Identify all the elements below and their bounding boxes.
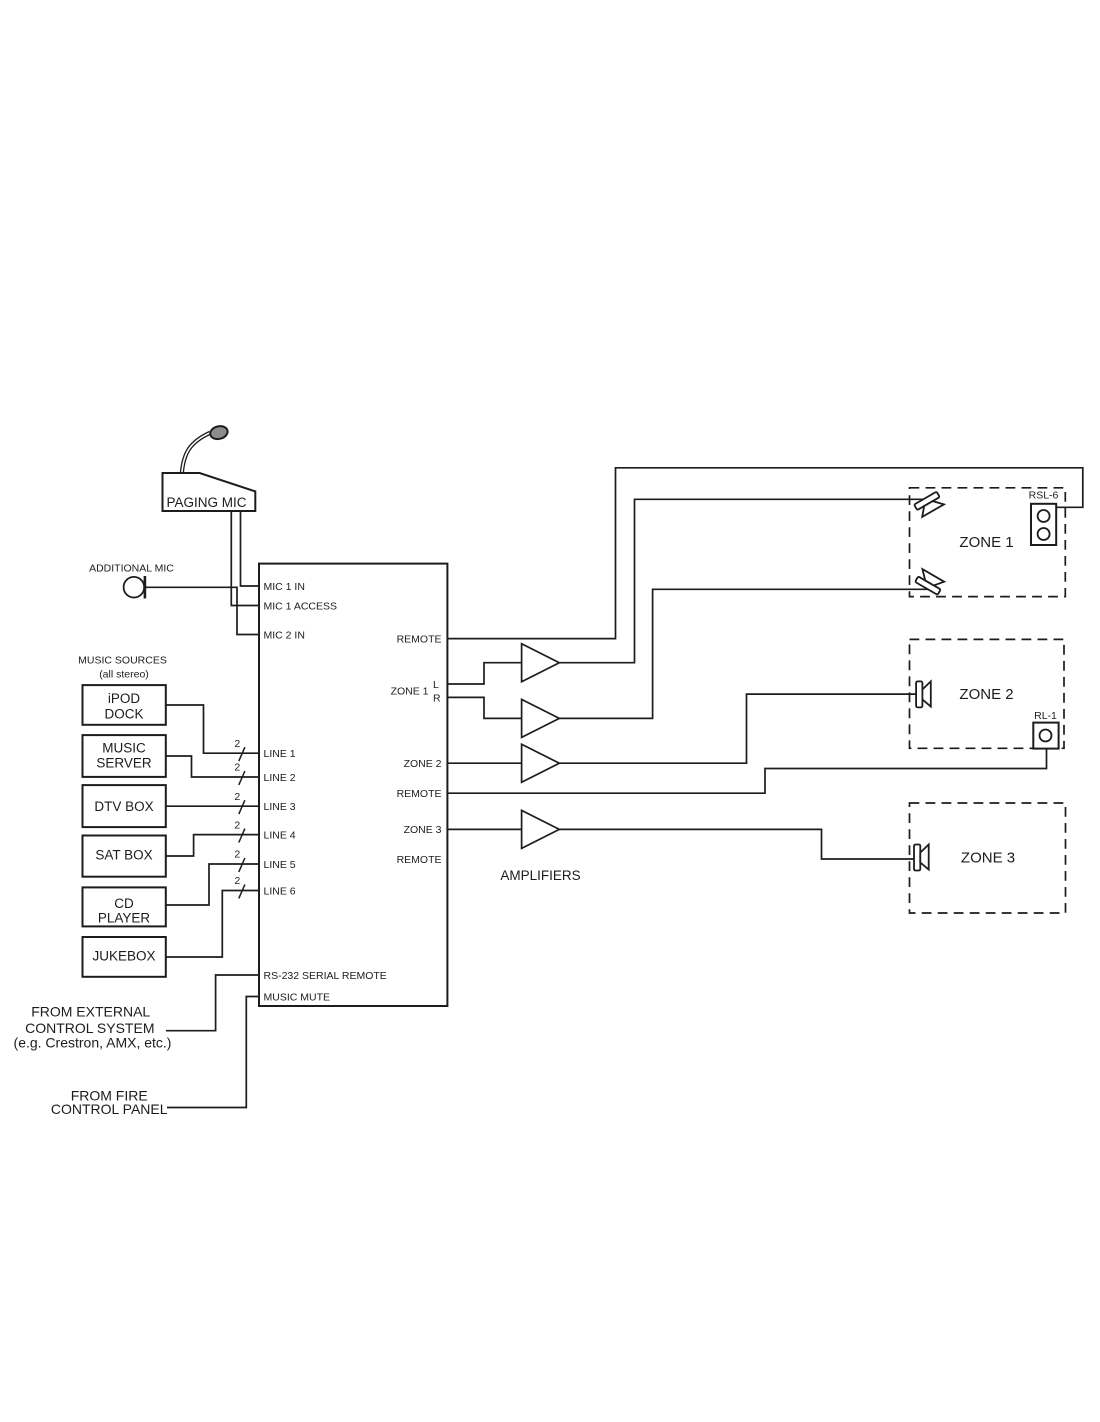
svg-text:REMOTE: REMOTE bbox=[397, 854, 442, 866]
svg-text:RS-232 SERIAL REMOTE: RS-232 SERIAL REMOTE bbox=[264, 970, 387, 982]
svg-text:LINE 4: LINE 4 bbox=[264, 829, 296, 841]
svg-text:CONTROL PANEL: CONTROL PANEL bbox=[51, 1101, 168, 1117]
svg-text:2: 2 bbox=[234, 791, 240, 803]
svg-text:PAGING MIC: PAGING MIC bbox=[166, 495, 246, 510]
svg-text:SAT BOX: SAT BOX bbox=[95, 848, 152, 863]
svg-text:2: 2 bbox=[234, 819, 240, 831]
svg-text:MIC 1 IN: MIC 1 IN bbox=[264, 581, 305, 593]
svg-text:(all stereo): (all stereo) bbox=[99, 669, 149, 681]
svg-text:DTV BOX: DTV BOX bbox=[94, 799, 153, 814]
svg-text:2: 2 bbox=[234, 875, 240, 887]
svg-text:ADDITIONAL MIC: ADDITIONAL MIC bbox=[89, 563, 174, 575]
svg-text:RSL-6: RSL-6 bbox=[1029, 490, 1059, 502]
svg-text:MIC 1 ACCESS: MIC 1 ACCESS bbox=[264, 600, 338, 612]
svg-text:ZONE 3: ZONE 3 bbox=[404, 824, 442, 836]
svg-text:AMPLIFIERS: AMPLIFIERS bbox=[500, 868, 580, 883]
svg-text:MUSIC: MUSIC bbox=[102, 741, 146, 756]
svg-text:MUSIC MUTE: MUSIC MUTE bbox=[264, 991, 331, 1003]
svg-text:R: R bbox=[433, 692, 441, 704]
svg-text:ZONE 1: ZONE 1 bbox=[391, 686, 429, 698]
svg-text:REMOTE: REMOTE bbox=[397, 788, 442, 800]
svg-text:LINE 6: LINE 6 bbox=[264, 885, 296, 897]
svg-text:LINE 5: LINE 5 bbox=[264, 859, 296, 871]
svg-text:LINE 1: LINE 1 bbox=[264, 748, 296, 760]
svg-text:(e.g. Crestron, AMX, etc.): (e.g. Crestron, AMX, etc.) bbox=[14, 1035, 172, 1051]
svg-text:RL-1: RL-1 bbox=[1034, 710, 1057, 722]
svg-text:CD: CD bbox=[114, 896, 134, 911]
svg-text:ZONE 3: ZONE 3 bbox=[961, 850, 1015, 867]
svg-text:MUSIC SOURCES: MUSIC SOURCES bbox=[78, 655, 167, 667]
svg-text:ZONE 2: ZONE 2 bbox=[404, 758, 442, 770]
svg-text:PLAYER: PLAYER bbox=[98, 911, 151, 926]
svg-text:FROM EXTERNAL: FROM EXTERNAL bbox=[31, 1004, 150, 1020]
svg-text:REMOTE: REMOTE bbox=[397, 633, 442, 645]
svg-text:2: 2 bbox=[234, 738, 240, 750]
svg-text:LINE 3: LINE 3 bbox=[264, 801, 296, 813]
svg-text:LINE 2: LINE 2 bbox=[264, 772, 296, 784]
svg-text:iPOD: iPOD bbox=[108, 691, 141, 706]
svg-text:JUKEBOX: JUKEBOX bbox=[92, 949, 155, 964]
svg-text:2: 2 bbox=[234, 849, 240, 861]
svg-text:DOCK: DOCK bbox=[104, 707, 143, 722]
svg-text:2: 2 bbox=[234, 762, 240, 774]
svg-text:L: L bbox=[433, 679, 439, 691]
svg-text:MIC 2 IN: MIC 2 IN bbox=[264, 629, 305, 641]
svg-text:ZONE 1: ZONE 1 bbox=[959, 534, 1013, 551]
svg-text:SERVER: SERVER bbox=[96, 755, 152, 770]
svg-text:ZONE 2: ZONE 2 bbox=[959, 686, 1013, 703]
